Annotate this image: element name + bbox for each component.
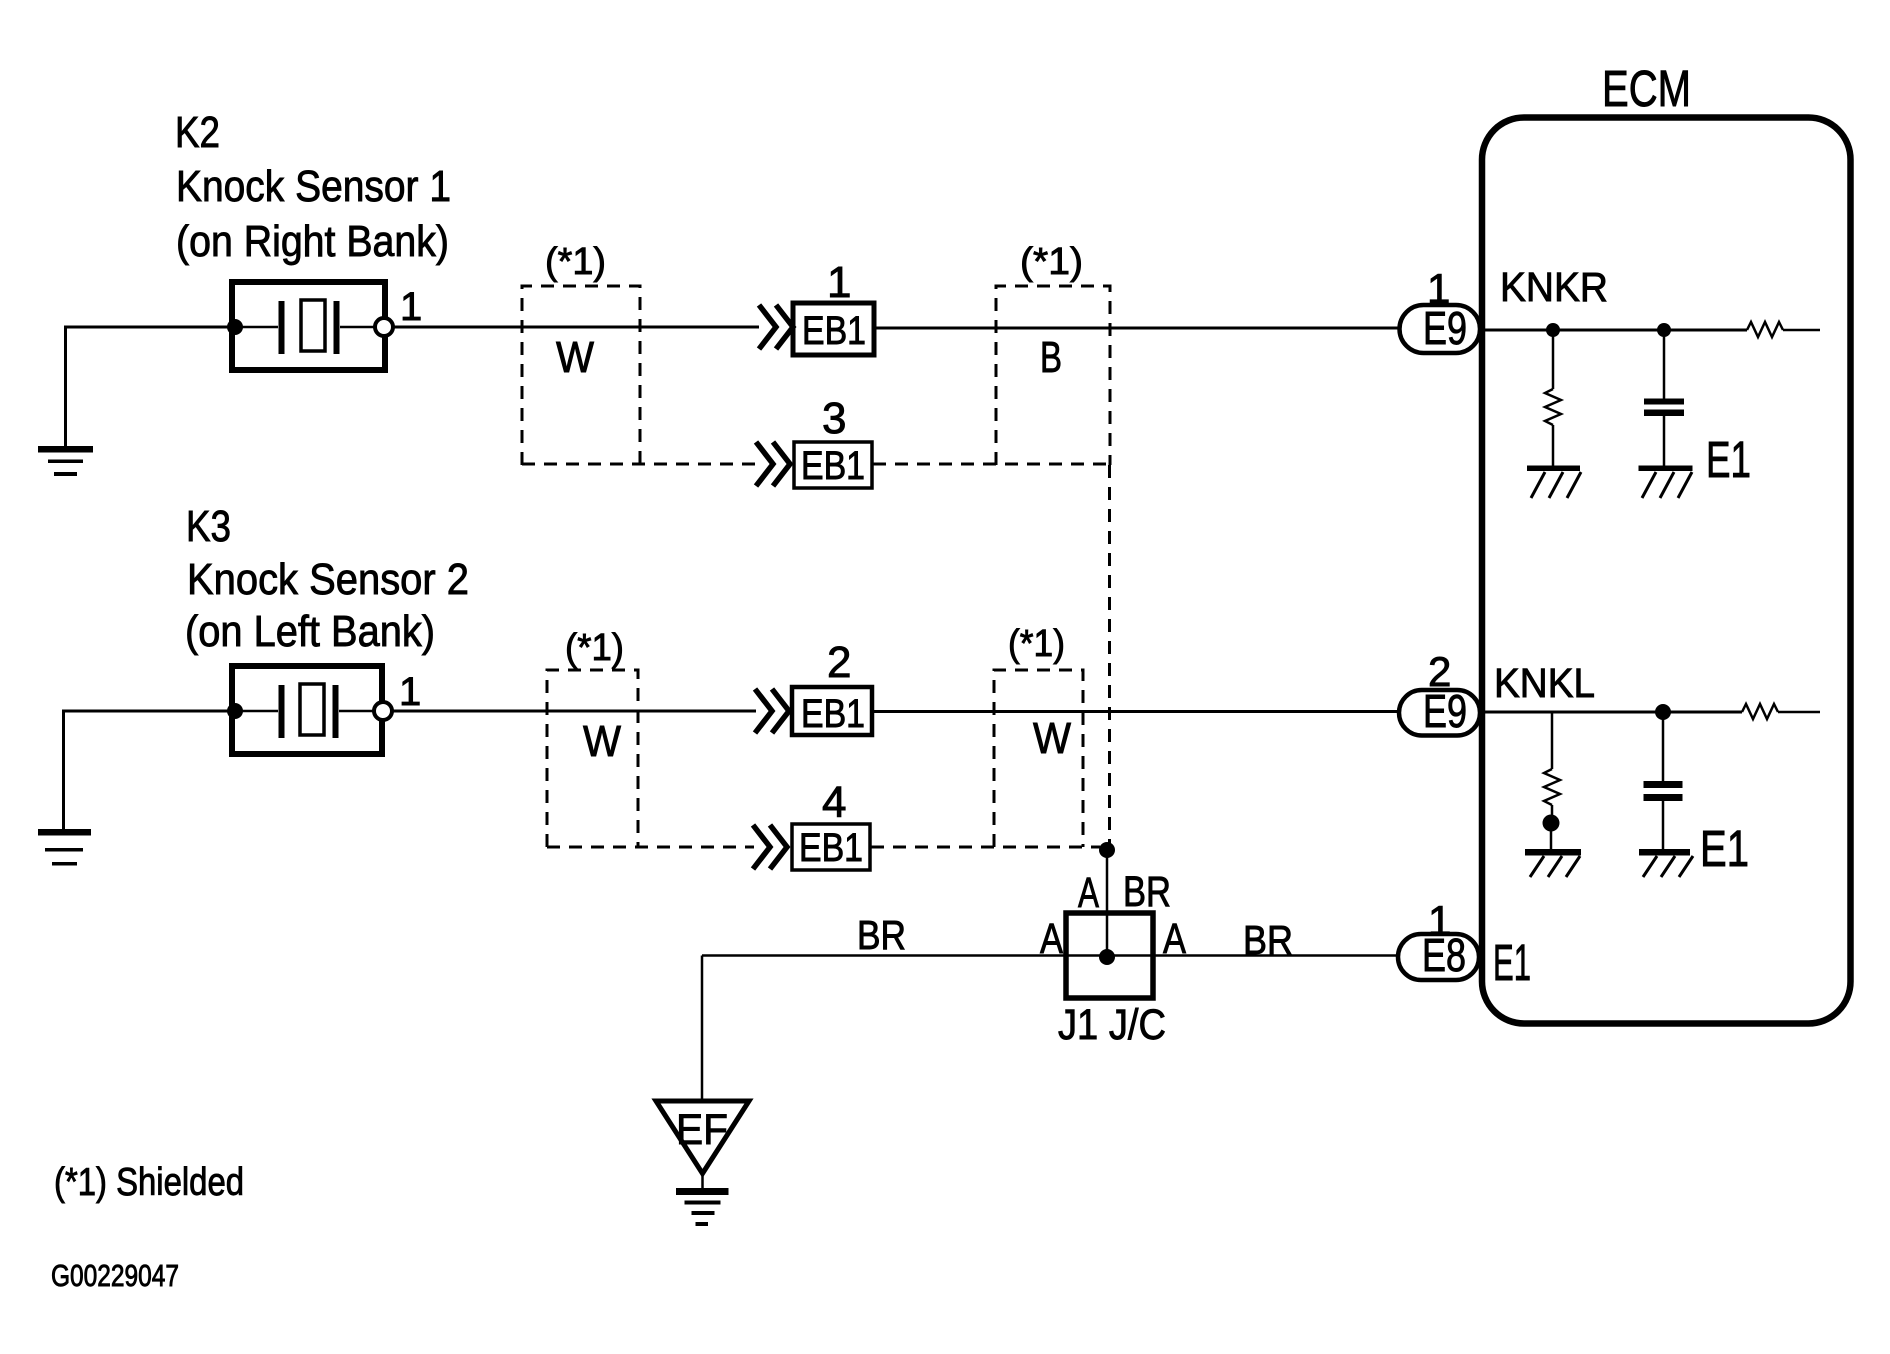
svg-text:3: 3 — [822, 394, 846, 443]
svg-text:(on Right Bank): (on Right Bank) — [176, 217, 449, 266]
svg-text:(*1): (*1) — [565, 627, 624, 669]
svg-text:G00229047: G00229047 — [51, 1258, 179, 1293]
svg-text:EF: EF — [676, 1106, 728, 1154]
wire row1 left horizontal — [64, 326, 235, 329]
ground G1 (knock sensor 1) — [38, 446, 93, 476]
svg-text:1: 1 — [827, 258, 851, 307]
svg-text:BR: BR — [1243, 917, 1293, 963]
knock sensor K3 left plate — [279, 685, 285, 738]
svg-text:BR: BR — [1123, 868, 1171, 916]
svg-text:E1: E1 — [1493, 934, 1531, 991]
svg-text:B: B — [1040, 333, 1062, 382]
connector EB1 pin 1 box — [793, 303, 874, 355]
knock sensor K2 symbol box — [232, 282, 385, 370]
label K2 knock sensor 1 — [175, 108, 451, 266]
svg-text:1: 1 — [1427, 265, 1450, 312]
wire row2 left horizontal — [62, 710, 235, 713]
wire row1 ground lead — [64, 327, 67, 446]
node dot at K3 left terminal — [227, 703, 243, 719]
capacitor row1 lead — [1663, 330, 1666, 399]
chassis ground row2 b — [1639, 849, 1690, 856]
wire row1 EB1 to E9 — [874, 327, 1402, 330]
connector EB1 pin 4 box — [792, 824, 870, 870]
svg-text:K2: K2 — [175, 108, 220, 157]
resistor R-horizontal row1 — [1747, 322, 1783, 337]
junction block J1 J/C — [1066, 913, 1153, 998]
svg-text:KNKR: KNKR — [1500, 264, 1608, 310]
svg-text:J1 J/C: J1 J/C — [1058, 1001, 1166, 1049]
chassis ground row2 a — [1525, 849, 1581, 856]
svg-text:W: W — [556, 333, 594, 382]
shield dashed vertical line down to junction — [1108, 465, 1111, 844]
wire row3 vertical to EF — [701, 956, 704, 1102]
resistor R-vertical row1 lead — [1552, 330, 1555, 389]
node dot at K2 left terminal — [227, 319, 243, 335]
ECM box — [1482, 118, 1851, 1024]
wire row2 inside ECM — [1481, 711, 1742, 714]
svg-text:Knock Sensor 2: Knock Sensor 2 — [187, 555, 469, 604]
svg-text:4: 4 — [822, 778, 846, 827]
knock sensor K3 symbol box — [232, 666, 382, 754]
chassis ground row1 b — [1639, 466, 1693, 472]
ground G2 (knock sensor 2) — [38, 829, 91, 866]
chevrons into EB1-4 — [753, 825, 770, 869]
capacitor row1 plates — [1644, 399, 1684, 417]
resistor R-vertical row2 zigzag — [1544, 769, 1560, 805]
wire row2 EB1 to E9 — [872, 710, 1402, 713]
svg-text:(*1): (*1) — [1020, 241, 1083, 283]
shield dashed box W row2 right — [994, 670, 1083, 847]
wire row3 horizontal BR — [702, 954, 1398, 957]
svg-text:W: W — [583, 717, 621, 766]
svg-text:EB1: EB1 — [801, 444, 865, 488]
connector EB1 pin 3 box — [794, 442, 872, 488]
EF ground lead — [701, 1174, 704, 1190]
resistor R-vertical row2 lead — [1551, 712, 1554, 769]
svg-text:2: 2 — [827, 638, 851, 687]
svg-text:A: A — [1163, 915, 1186, 963]
svg-text:KNKL: KNKL — [1494, 660, 1595, 706]
svg-text:A: A — [1040, 915, 1063, 963]
chevrons into EB1-3 — [756, 442, 773, 486]
connector oval E9 pin2 — [1399, 690, 1480, 736]
svg-text:E1: E1 — [1700, 820, 1749, 877]
shield dashed line row2 (right of EB1-4) — [871, 846, 1100, 849]
wire row2 to EB1 — [392, 710, 756, 713]
capacitor row2 plates — [1644, 781, 1683, 801]
knock sensor K3 crystal square — [300, 684, 324, 735]
knock sensor K3 right plate — [333, 685, 339, 738]
node dot row1 a — [1546, 323, 1560, 337]
knock sensor K2 crystal square — [301, 300, 325, 351]
svg-text:BR: BR — [857, 912, 906, 958]
svg-text:W: W — [1033, 714, 1071, 763]
svg-text:EB1: EB1 — [802, 309, 866, 353]
ground G3 (EF) — [676, 1188, 729, 1226]
svg-text:(*1) Shielded: (*1) Shielded — [54, 1161, 244, 1204]
svg-text:Knock Sensor 1: Knock Sensor 1 — [176, 162, 451, 211]
wire junction to J/C box — [1106, 850, 1109, 957]
connector EB1 pin 2 box — [792, 687, 872, 735]
resistor R-horizontal row2 — [1742, 704, 1778, 719]
svg-text:EB1: EB1 — [799, 826, 863, 870]
svg-text:EB1: EB1 — [801, 692, 865, 736]
shield dashed line row1 (left of EB1-3) — [522, 463, 757, 466]
junction dot of shields — [1099, 842, 1115, 858]
wire row2 ground lead — [62, 711, 65, 829]
svg-text:E1: E1 — [1706, 431, 1751, 488]
svg-text:1: 1 — [399, 670, 421, 714]
ground symbol EF triangle — [656, 1101, 749, 1174]
node dot in J/C — [1099, 949, 1115, 965]
knock sensor K2 internal leads — [235, 326, 278, 329]
open pin circle at K2 terminal 1 — [375, 318, 393, 336]
wire row1 inside ECM — [1481, 329, 1747, 332]
shield dashed box W row2 left — [547, 670, 638, 847]
svg-text:ECM: ECM — [1602, 60, 1691, 117]
svg-text:1: 1 — [400, 285, 422, 329]
shield dashed box W row1 — [522, 286, 640, 465]
chevrons into EB1-2 — [755, 689, 772, 733]
node dot row1 b — [1657, 323, 1671, 337]
wire row1 to EB1 — [393, 326, 759, 329]
connector oval E9 pin1 — [1400, 305, 1481, 353]
node dot row2 — [1655, 704, 1671, 720]
knock sensor K2 left plate — [279, 301, 285, 354]
svg-text:2: 2 — [1428, 648, 1451, 695]
label K3 knock sensor 2 — [185, 502, 469, 656]
chevrons into EB1-1 — [759, 305, 776, 349]
svg-text:(on Left Bank): (on Left Bank) — [185, 607, 435, 656]
chassis ground row1 a — [1527, 466, 1580, 472]
svg-text:A: A — [1078, 869, 1099, 917]
knock sensor K3 internal leads — [235, 710, 278, 713]
knock sensor K2 right plate — [334, 301, 340, 354]
resistor R-vertical row1 zigzag — [1545, 389, 1561, 425]
svg-text:(*1): (*1) — [1008, 623, 1065, 665]
open pin circle at K3 terminal 1 — [374, 702, 392, 720]
svg-text:(*1): (*1) — [545, 241, 606, 283]
shield dashed line row1 (right of EB1-3) — [873, 463, 1110, 466]
svg-text:K3: K3 — [186, 502, 231, 551]
node dot above ground row2 — [1543, 815, 1560, 832]
svg-text:1: 1 — [1428, 897, 1451, 944]
shield dashed box B row1 — [996, 286, 1110, 465]
connector oval E8 pin1 — [1398, 934, 1479, 980]
shield dashed line row2 (left of EB1-4) — [547, 846, 754, 849]
capacitor row2 lead — [1662, 712, 1665, 781]
